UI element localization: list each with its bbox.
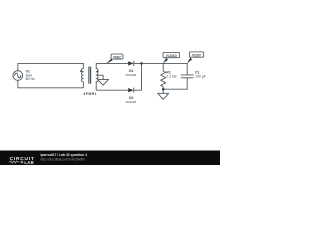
capacitor C1 plates (181, 75, 193, 78)
svg-text:60 Hz: 60 Hz (26, 77, 35, 81)
flag VSEC box (111, 54, 123, 59)
wire secondary center tap (96, 75, 103, 79)
svg-text:VLOAD: VLOAD (166, 54, 178, 58)
wire D2 cathode up to top rail (134, 63, 142, 90)
logo resistor squiggle (9, 161, 19, 163)
node dot D1/D2 junction (140, 62, 143, 65)
flag VOUT pointer (187, 58, 192, 64)
svg-text:1N4148: 1N4148 (125, 100, 136, 104)
svg-text:VSEC: VSEC (113, 55, 122, 59)
flag VLOAD pointer (163, 58, 168, 64)
flag VOUT box (189, 52, 203, 57)
wire bottom-left rail (18, 80, 84, 87)
diode D1 body (128, 61, 133, 65)
wire C1 bottom lead (186, 78, 188, 89)
svg-text:100 µF: 100 µF (195, 74, 206, 78)
transformer XFMR1 secondary coil (96, 68, 98, 81)
diode D2 body (128, 88, 133, 92)
wire secondary top lead (96, 63, 128, 68)
wire bottom-right rail (163, 88, 187, 90)
footer black bar (0, 151, 220, 166)
wire secondary bottom lead (96, 82, 128, 90)
flag VLOAD box (163, 52, 180, 57)
flag VSEC pointer (106, 59, 113, 64)
svg-text:1N4148: 1N4148 (125, 73, 136, 77)
ground G1 triangle (158, 93, 169, 99)
svg-text:XFMR1: XFMR1 (83, 92, 97, 96)
svg-text:LAB: LAB (24, 160, 34, 165)
voltage source V1 (13, 71, 23, 81)
ground G1 stub under R1 (162, 89, 164, 93)
svg-text:2.2 kΩ: 2.2 kΩ (166, 75, 177, 79)
diode D2 cathode bar (133, 88, 135, 92)
transformer phase dot primary (80, 70, 82, 72)
wire node to C1 corner (163, 63, 187, 74)
svg-text:lparrodi17 / Lab 32 question 4: lparrodi17 / Lab 32 question 4 (41, 153, 88, 157)
transformer phase dot secondary (97, 70, 99, 72)
wire top-left rail (18, 63, 83, 70)
node dot R1 bottom junction (162, 88, 165, 91)
logo capacitor symbol (20, 161, 24, 164)
ground G2 (center tap) (98, 79, 109, 85)
transformer core (89, 67, 91, 83)
wire primary top lead (82, 63, 84, 68)
wire D1 cathode to node (134, 62, 163, 64)
svg-text:http://circuitlab.com/c/hy5w9b: http://circuitlab.com/c/hy5w9br (41, 157, 86, 161)
resistor R1 (161, 63, 166, 89)
transformer XFMR1 primary coil (81, 68, 83, 81)
diode D1 cathode bar (133, 61, 135, 65)
svg-text:VOUT: VOUT (192, 53, 201, 57)
